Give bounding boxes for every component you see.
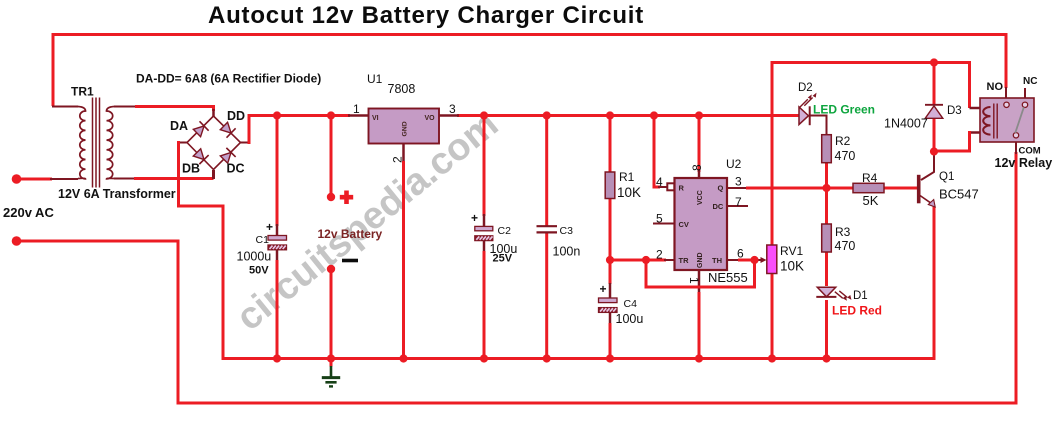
RV1 wiper arrow [761, 257, 767, 263]
wire: relay coil bottom stub (dark) [970, 131, 981, 134]
wire: R1 bottom to TR node [609, 198, 612, 261]
svg-text:LED Green: LED Green [813, 103, 875, 117]
wire: Q1 emitter to ground rail [933, 206, 936, 359]
wire: 555 pin2 stub (dark) [664, 259, 675, 261]
svg-text:TR: TR [679, 256, 690, 265]
svg-text:6: 6 [737, 247, 744, 261]
wire: left vertical of top rail down to primary top [52, 33, 55, 106]
svg-text:+: + [471, 211, 478, 225]
svg-text:470: 470 [835, 239, 856, 253]
wire: bridge top vertex stub (dark) [212, 109, 215, 117]
wire: 555 pin5 CV stub (dark) [653, 223, 675, 225]
svg-text:100n: 100n [553, 245, 581, 259]
svg-text:+: + [266, 220, 273, 234]
svg-text:1: 1 [353, 102, 360, 116]
wire: C1 bottom stub (dark) [276, 250, 279, 262]
wire: relay coil supply line y62 [771, 61, 972, 64]
resistor R4 [853, 183, 884, 192]
svg-text:RV1: RV1 [780, 244, 803, 258]
capacitor C2 [471, 211, 493, 241]
svg-text:Q1: Q1 [939, 171, 954, 183]
svg-text:R4: R4 [862, 171, 878, 185]
wire: 555 pin3 Q stub (dark) [726, 187, 748, 189]
svg-text:Autocut 12v Battery Charger Ci: Autocut 12v Battery Charger Circuit [208, 2, 644, 29]
ground symbol [322, 358, 340, 386]
wire: relay coil top stub (dark) [970, 107, 981, 110]
junction dot output node [822, 184, 830, 192]
wire: battery minus to ground rail [330, 269, 333, 358]
wire: 555 pin1 to ground rail [698, 292, 701, 358]
junction dot collector node [930, 147, 938, 155]
wire: relay coil bottom to collector node [934, 131, 971, 151]
bridge rectifier frame [187, 116, 241, 170]
svg-text:R2: R2 [835, 134, 851, 148]
svg-text:U1: U1 [367, 72, 383, 86]
wire: R2 bottom to output node [825, 163, 828, 190]
svg-text:GND: GND [402, 121, 409, 136]
wire: relay NO pin stub (dark) [1005, 87, 1007, 102]
wire: D1 cathode to ground rail [825, 300, 828, 358]
junction dot D3 top [930, 58, 938, 66]
wire: 555 pin1 GND stub (dark) [698, 270, 701, 293]
svg-text:CV: CV [679, 220, 689, 229]
wire: ground rail [222, 357, 936, 360]
relay K1 [980, 98, 1034, 142]
svg-text:4: 4 [656, 175, 663, 189]
svg-text:DB: DB [182, 162, 200, 176]
svg-text:R: R [679, 184, 685, 193]
wire: 555 pin6 TH stub (dark) [726, 259, 740, 261]
svg-text:GND: GND [697, 252, 704, 268]
svg-text:Q: Q [718, 184, 724, 193]
wire: bridge left vertex lead (dark) [179, 142, 189, 144]
svg-text:COM: COM [1019, 146, 1041, 157]
svg-text:3: 3 [735, 175, 742, 189]
wire: RV1 bottom to ground rail [771, 273, 774, 358]
svg-text:C3: C3 [560, 225, 574, 237]
svg-text:VO: VO [425, 115, 436, 122]
wire: main +12V rail right of regulator [457, 114, 773, 117]
wire: secondary bottom lead (dark) [114, 178, 135, 180]
wire: primary top lead (dark) [52, 106, 78, 108]
LED D2 green [799, 93, 816, 125]
wire: AC terminal 2 vertical down to outer bottom rail [177, 240, 180, 405]
svg-text:C4: C4 [624, 298, 638, 310]
battery plus terminal [327, 193, 335, 201]
svg-text:220v AC: 220v AC [3, 205, 54, 220]
svg-text:TR1: TR1 [71, 85, 94, 99]
wire: C2 to ground rail [483, 251, 486, 358]
svg-text:D2: D2 [798, 82, 813, 94]
svg-text:10K: 10K [617, 185, 641, 200]
wire: C1 top stub (dark) [276, 224, 279, 236]
junction dot loop left [642, 256, 650, 264]
svg-text:DC: DC [713, 202, 724, 211]
svg-text:3: 3 [449, 102, 456, 116]
wire: bridge right vertex lead (dark) [241, 142, 250, 144]
svg-text:25V: 25V [493, 253, 513, 265]
svg-text:VI: VI [372, 115, 379, 122]
svg-text:NO: NO [987, 81, 1004, 93]
wire: outer bottom rail (AC to relay COM) [177, 402, 1018, 405]
LED D1 red [816, 287, 851, 300]
svg-text:NE555: NE555 [708, 270, 748, 285]
wire: battery plus branch [330, 116, 333, 198]
svg-text:TH: TH [712, 256, 722, 265]
resistor R3 [822, 224, 832, 252]
diode D3 1N4007 [925, 105, 943, 119]
wire: RV1 wiper arrow lead (dark) [755, 259, 763, 261]
wire: output node down to R3 [825, 188, 828, 225]
svg-text:VCC: VCC [697, 190, 704, 205]
wire: D3 anode down to collector node [933, 118, 936, 152]
wire: TR node to C4 [609, 260, 612, 284]
transistor Q1 BC547 [919, 175, 936, 207]
wire: AC terminal 1 to primary bottom [17, 178, 53, 181]
wire: bridge negative output down and over to ground rail [179, 141, 224, 359]
IC U2 NE555 [675, 178, 728, 270]
wire: bridge bottom vertex stub (dark) [212, 170, 215, 179]
svg-text:DA: DA [170, 119, 188, 133]
wire: TR-TH loop under 555 [646, 260, 755, 287]
wire: 555 pin7 DC stub (dark) [726, 205, 748, 207]
wire: R1 branch from rail [609, 116, 612, 174]
wire: relay NC pin stub (dark) [1024, 88, 1026, 102]
svg-text:DD: DD [227, 109, 245, 123]
wire: divider vertical from relay line through rail end to RV1 top [771, 61, 774, 246]
terminal AC2 [12, 236, 22, 246]
wire: 555 pin8 VCC branch from rail [698, 116, 701, 173]
wire: C1 to ground rail [276, 260, 279, 358]
junction dot TR node [606, 256, 614, 264]
wire: relay coil top feed [968, 61, 971, 108]
wire: top rail from relay NO to transformer primary (autocut loop) [53, 33, 1006, 36]
wire: 7808 GND pin (dark) [402, 144, 405, 164]
battery minus terminal [327, 265, 335, 273]
svg-text:R3: R3 [835, 225, 851, 239]
wire: 7808 GND to ground rail [402, 161, 405, 358]
svg-text:12v Relay: 12v Relay [995, 156, 1053, 170]
svg-text:DC: DC [227, 162, 245, 176]
svg-text:C1: C1 [256, 234, 270, 246]
battery plus sign [340, 191, 353, 205]
wire: R4 to Q1 base [884, 187, 917, 190]
wire: TR wire from R1 node to 555 pin2 [610, 259, 666, 262]
terminal AC1 [12, 174, 22, 184]
svg-text:BC547: BC547 [939, 187, 979, 202]
regulator U1 7808 [369, 109, 440, 144]
svg-text:C2: C2 [498, 225, 512, 237]
svg-text:10K: 10K [780, 259, 804, 274]
wire: bridge positive output up to main rail [248, 116, 251, 145]
wire: C3 to ground rail [545, 233, 548, 359]
battery minus sign [342, 259, 358, 263]
wire: C4 to ground rail [609, 323, 612, 358]
wire: collector node to Q1 collector (dark) [921, 152, 934, 181]
capacitor C1 [266, 220, 287, 250]
resistor R2 [822, 135, 832, 163]
wire: relay COM pin stub (dark) [1015, 137, 1017, 154]
svg-text:12V 6A Transformer: 12V 6A Transformer [58, 187, 176, 201]
reset bubble pin4 [667, 183, 674, 190]
wire: primary bottom lead (dark) [50, 178, 78, 180]
resistor R1 [605, 172, 615, 199]
diode DA [192, 121, 208, 137]
svg-text:D3: D3 [947, 105, 962, 117]
wire: 555 pin4 branch from rail [653, 116, 661, 189]
wire: C4 bottom stub (dark) [609, 313, 612, 325]
svg-text:2: 2 [391, 156, 405, 163]
svg-text:DA-DD= 6A8 (6A Rectifier Diode: DA-DD= 6A8 (6A Rectifier Diode) [136, 72, 321, 86]
wire: secondary top to bridge top vertex [135, 105, 214, 111]
capacitor C4 [599, 282, 618, 312]
diode DB [192, 148, 208, 164]
svg-text:7808: 7808 [388, 82, 416, 96]
svg-text:1000u: 1000u [237, 250, 272, 264]
wire: 555 pin6 to RV1 wiper node [738, 259, 755, 262]
wire: secondary top lead (dark) [114, 106, 136, 108]
wire: C4 top stub (dark) [609, 283, 612, 299]
svg-text:1: 1 [687, 277, 701, 284]
svg-text:12v Battery: 12v Battery [318, 227, 383, 241]
svg-text:100u: 100u [616, 312, 644, 326]
wire: secondary bottom to bridge bottom vertex [134, 177, 214, 180]
junction dots ground rail [273, 354, 281, 362]
svg-text:R1: R1 [619, 170, 635, 184]
wire: C3 branch from rail [545, 116, 548, 227]
wire: AC terminal 2 horizontal [17, 240, 180, 243]
wire: C2 bottom stub (dark) [483, 241, 486, 253]
wire: C1 branch from rail [276, 116, 279, 227]
svg-text:+: + [600, 282, 607, 296]
wire: right vertical of top rail down to relay NO pin [1005, 33, 1008, 88]
wire: main +12V rail left of regulator [248, 114, 351, 117]
svg-text:U2: U2 [726, 157, 742, 171]
wire: 555 pin3 Q to output node [746, 187, 828, 190]
capacitor C3 [537, 226, 558, 232]
svg-text:50V: 50V [249, 265, 269, 277]
wire: 555 pin4 stub to reset bubble (dark) [658, 186, 668, 188]
wire: right outer vertical up to relay COM [1015, 152, 1018, 405]
svg-text:LED Red: LED Red [832, 304, 882, 318]
svg-text:1N4007: 1N4007 [884, 117, 928, 131]
svg-text:2: 2 [656, 248, 663, 262]
wire: R3 bottom to D1 anode [825, 251, 828, 286]
junction dot TH wiper [750, 256, 758, 264]
wire: D2 cathode lead to R2 top (dark) [810, 116, 827, 136]
potentiometer RV1 [767, 245, 777, 274]
svg-text:5: 5 [656, 212, 663, 226]
svg-text:7: 7 [735, 195, 742, 209]
svg-text:5K: 5K [863, 193, 879, 208]
diode DC [219, 148, 235, 164]
wire: C2 top stub (dark) [483, 214, 486, 227]
svg-text:NC: NC [1023, 76, 1037, 87]
transformer TR1 [78, 98, 114, 188]
wire: D3 cathode branch from y62 line [933, 63, 936, 106]
wire: C2 branch from rail [483, 116, 486, 217]
svg-text:8: 8 [690, 164, 704, 171]
junction dots main rail [273, 111, 281, 119]
wire: output node to R4 [827, 187, 854, 190]
svg-text:D1: D1 [853, 290, 868, 302]
svg-text:470: 470 [835, 149, 856, 163]
diode DD [219, 121, 235, 137]
wire: D2 anode lead [772, 114, 799, 117]
